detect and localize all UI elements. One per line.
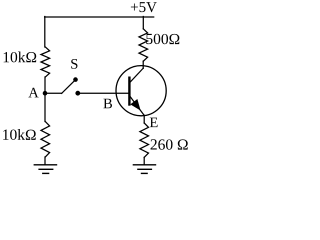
ground left	[34, 165, 58, 174]
transistor Q1 emitter arrow	[131, 100, 140, 110]
svg-text:10kΩ: 10kΩ	[2, 49, 37, 66]
svg-text:A: A	[28, 85, 39, 101]
svg-text:10kΩ: 10kΩ	[2, 127, 37, 144]
wire R3 bottom to collector	[142, 61, 144, 68]
resistor R1 10kΩ	[41, 47, 50, 77]
resistor R4 260Ω	[140, 123, 149, 157]
svg-text:+5V: +5V	[130, 0, 157, 16]
wire R1 bottom to node A	[44, 77, 46, 93]
transistor Q1 base bar	[128, 78, 130, 105]
wire R2 bottom to left ground	[44, 157, 46, 164]
transistor Q1 collector diagonal	[130, 68, 143, 82]
svg-text:500Ω: 500Ω	[145, 31, 180, 48]
svg-text:B: B	[103, 96, 113, 112]
wire left vertical from top rail to R1	[44, 17, 46, 48]
switch S arm	[62, 81, 75, 93]
switch S upper contact dot	[73, 77, 78, 82]
svg-text:E: E	[149, 115, 158, 131]
wire node A to switch arm	[45, 92, 62, 94]
node A junction dot	[43, 91, 48, 96]
wire right vertical +5V to R3	[142, 17, 144, 29]
wire emitter to R4	[143, 115, 145, 123]
switch S lower contact dot	[75, 91, 80, 96]
resistor R3 500Ω	[139, 29, 148, 61]
transistor Q1 emitter diagonal	[130, 96, 144, 115]
ground right	[133, 165, 157, 174]
wire R4 bottom to right ground	[143, 157, 145, 164]
wire top rail	[45, 16, 154, 18]
wire node A to R2	[44, 93, 46, 121]
wire switch to base B	[78, 92, 130, 94]
svg-text:260 Ω: 260 Ω	[150, 137, 189, 154]
svg-text:S: S	[70, 57, 78, 73]
transistor Q1 circle	[116, 66, 166, 116]
resistor R2 10kΩ	[41, 122, 50, 158]
